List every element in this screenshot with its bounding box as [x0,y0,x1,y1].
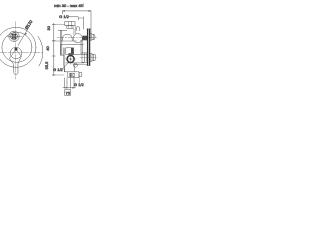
hub pivot dot [15,48,18,51]
knob quadrant dots [12,34,17,39]
svg-text:40: 40 [45,46,50,51]
top port [65,22,75,26]
diameter leader line [18,22,32,46]
top dim line [62,10,91,12]
bottom outlet [68,72,79,78]
mixing dome [62,34,72,41]
hatched square [70,73,74,77]
handle hub side [90,54,92,62]
svg-text:min 30 - max 45: min 30 - max 45 [54,3,83,8]
body under circle line [66,62,84,64]
hub axis centerline [80,57,97,59]
extension line left [61,11,63,14]
stem hatch block [82,36,87,41]
diverter knob inner circle [10,33,17,40]
G1/2 leader [69,17,78,20]
diverter axis centerline [57,36,97,38]
body behind plate at hub height [82,53,87,62]
bottom extension lines [64,78,66,88]
bottom dim line [63,87,76,89]
hub circle [10,47,22,59]
body shoulder ext line [58,29,67,31]
shelf line [61,44,84,46]
horizontal centerline [0,51,44,53]
svg-text:30: 30 [46,25,51,30]
wall plate edge-on [88,29,90,65]
ticks [52,24,55,26]
bottom dim box 75 [65,90,71,96]
extension x=83.5 [83,4,85,8]
diverter knob side [90,34,92,41]
diverter knob outer circle [9,31,19,41]
lever swing arc [38,36,43,66]
body left edge [60,30,62,55]
plate inner circle [2,32,32,62]
body mid line [52,40,76,42]
svg-text:G 1/2: G 1/2 [74,82,85,87]
vertical dim line [53,23,55,75]
body left edge mid [60,45,62,55]
cartridge box [66,48,74,55]
svg-text:55.5: 55.5 [44,61,49,70]
diverter top stub [76,27,80,31]
port columns [73,28,75,34]
port crosshair [65,58,76,60]
diverter housing circle [73,34,82,43]
svg-text:75: 75 [65,90,70,95]
vertical centerline [15,22,17,80]
plate outer circle [0,27,36,67]
small elbow circle [73,63,77,67]
leader arrowhead [25,33,27,35]
knob cross [13,32,15,41]
extension line right [90,11,92,34]
lower body [61,54,64,56]
svg-text:G 1/2: G 1/2 [59,14,70,19]
inlet port circle ring [67,56,74,63]
leader to port [62,63,69,70]
body right edge near plate [80,40,82,54]
lever handle [10,49,22,74]
diverter knob crosshair horizontal [7,35,23,37]
